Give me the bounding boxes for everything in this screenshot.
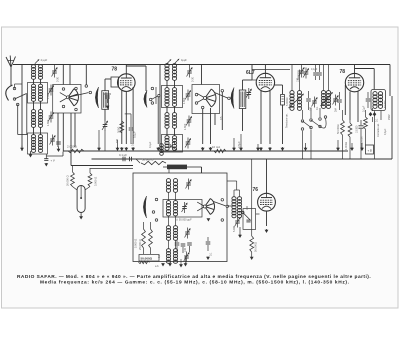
svg-text:76: 76 — [253, 187, 259, 193]
ground arrow V2 k2 — [268, 147, 272, 151]
caption line 2 — [40, 280, 350, 286]
capacitor C9 — [356, 105, 366, 159]
contact S3 b — [310, 119, 313, 129]
svg-text:100: 100 — [246, 205, 249, 210]
box around V4 grid — [243, 209, 256, 230]
contact S2 d — [221, 89, 224, 92]
svg-text:3.000 Ω: 3.000 Ω — [94, 177, 98, 186]
wire CV1 bottom — [104, 109, 106, 120]
wire chassis bus A — [63, 150, 348, 152]
trimmer C3 right of L3 — [48, 112, 54, 123]
contact S3 c — [319, 118, 322, 128]
svg-text:100: 100 — [297, 77, 300, 82]
ground arrow mid a — [97, 130, 101, 151]
ground arrow V1 k1 — [120, 147, 124, 151]
wire antenna contact drop — [15, 84, 28, 135]
ground arrow V1 k2 — [124, 147, 128, 151]
trimmer C4 right of L4 — [50, 135, 61, 153]
tuning capacitor CV1 rotor — [95, 87, 98, 108]
value labels osc section — [158, 205, 249, 258]
ground arrow mid f — [304, 143, 308, 151]
trimmer C12 — [182, 202, 188, 213]
trimmer C8 — [185, 138, 191, 149]
coil coupling — [160, 142, 177, 155]
contact S4 b — [152, 211, 155, 214]
label tube V2 6L7 — [246, 70, 255, 76]
label 50000 uuF — [176, 218, 192, 222]
ground arrow right a — [336, 140, 340, 151]
resistor R5 — [337, 120, 344, 135]
wire S2 top — [201, 65, 203, 85]
trimmer C14 — [184, 252, 190, 263]
contact S2 b — [195, 102, 198, 105]
resistor V2 screen — [281, 95, 289, 107]
IF transformer T3 can — [371, 90, 387, 111]
grid cap box V1 — [111, 77, 119, 87]
value labels top section — [47, 76, 379, 148]
svg-text:6L7: 6L7 — [246, 70, 255, 76]
resistor R2 3000 — [88, 173, 97, 187]
svg-text:Tensione an.: Tensione an. — [285, 113, 289, 128]
ground arrow right b — [350, 143, 354, 151]
capacitor T2b — [337, 92, 342, 110]
box around L10 — [163, 200, 202, 218]
trimmer T2 — [333, 95, 339, 106]
wire coil block verticals — [34, 65, 41, 136]
box around L6 — [162, 86, 183, 108]
svg-text:25.000 Ω: 25.000 Ω — [138, 239, 142, 250]
capacitor V1 cathode — [125, 114, 137, 144]
svg-text:Media frequenza: kc/s 264 — Ga: Media frequenza: kc/s 264 — Gamme: c. c.… — [40, 280, 350, 286]
trimmer arrow over L1 — [35, 58, 48, 64]
antenna lead hook — [6, 85, 13, 101]
capacitor T3 — [366, 92, 371, 108]
wire S3 curve — [320, 116, 327, 128]
coil L7 pair — [165, 113, 177, 129]
label tube V1 78 — [112, 67, 118, 73]
resistor 10mA on bus A — [212, 145, 226, 153]
wire V2 screen — [275, 85, 283, 94]
svg-text:1.600: 1.600 — [184, 123, 187, 130]
svg-text:0,1μF: 0,1μF — [133, 131, 137, 138]
wire S1 top feeds — [63, 65, 87, 88]
wire V1 plate to bus — [125, 65, 127, 74]
svg-text:50.000Ω: 50.000Ω — [254, 242, 258, 252]
svg-text:1.600: 1.600 — [183, 97, 186, 104]
tuning capacitor CV1b rotor — [144, 91, 147, 108]
contact S2 a — [195, 93, 198, 96]
capacitor pair 0,1uF — [311, 65, 322, 81]
resistor 2.000 ohm on bus A — [67, 145, 84, 153]
svg-text:10.000: 10.000 — [356, 125, 359, 133]
wire V1 plate branch — [126, 66, 146, 91]
wire R5 — [342, 110, 344, 159]
contact S4 d — [221, 199, 224, 202]
label 50000 ohm boxed — [139, 255, 160, 264]
svg-text:250V: 250V — [388, 114, 391, 120]
switch arm antenna — [15, 94, 27, 100]
svg-text:+ V: + V — [51, 159, 55, 163]
svg-text:0,5μF: 0,5μF — [237, 141, 241, 148]
ground arrow right c — [360, 143, 364, 151]
wire osc left — [144, 222, 151, 254]
wire CV1 top — [105, 79, 111, 91]
wire V2 screen drop — [281, 105, 285, 152]
caption line 1 — [17, 274, 371, 280]
trimmer arrows over L5 — [167, 59, 187, 64]
wire V1 cathode drops — [122, 87, 133, 144]
contact S4 c — [155, 219, 158, 222]
ground below L4 left — [29, 151, 33, 158]
resistor 50.000 ohm below bus B — [136, 158, 166, 165]
contact S4 a — [155, 198, 158, 201]
svg-text:∅ 50.000 μμF: ∅ 50.000 μμF — [176, 218, 192, 222]
trimmer C11 — [186, 179, 192, 190]
contact S2 c — [201, 106, 204, 109]
wire top bus — [13, 64, 390, 66]
wire T4 top — [227, 181, 240, 197]
contact S1 d — [75, 108, 78, 111]
trimmer C13 — [185, 228, 191, 239]
svg-text:1.000Ω: 1.000Ω — [345, 142, 348, 150]
svg-text:0,1μF: 0,1μF — [149, 141, 152, 148]
contact antenna a — [13, 87, 16, 90]
ballast lamp — [77, 186, 85, 213]
wire CV1b drop — [156, 97, 160, 152]
svg-text:4 μμF: 4 μμF — [41, 58, 48, 62]
wire V3 cathode drops — [345, 85, 358, 122]
contact mid b — [151, 102, 154, 105]
svg-text:78: 78 — [112, 67, 118, 73]
ground arrow S2 a — [201, 147, 205, 151]
wire right edge drop — [389, 65, 391, 97]
wire CV2 top — [243, 80, 253, 90]
switch arm T4 — [243, 213, 251, 221]
capacitor osc c — [187, 243, 192, 252]
capacitor osc a — [175, 240, 180, 252]
contact S4 e — [226, 205, 229, 208]
antenna — [6, 56, 16, 87]
wire T3 bottom — [375, 111, 382, 160]
svg-text:50.000 Ω: 50.000 Ω — [142, 158, 153, 162]
wire osc coil verticals — [169, 192, 176, 249]
trimmer T4 — [235, 217, 241, 228]
wire V4 grid lead — [227, 206, 260, 214]
box around L8 — [162, 135, 183, 153]
trimmer C7 — [186, 116, 192, 127]
resistor V1 cathode — [117, 121, 124, 133]
wire V2 aux top — [252, 65, 256, 81]
tube V1 78 — [118, 74, 136, 92]
svg-text:RADIO SAFAR. — Mod. « 804 » e: RADIO SAFAR. — Mod. « 804 » e « 940 ». —… — [17, 274, 371, 280]
svg-text:100: 100 — [184, 247, 187, 252]
ground arrow mid c — [232, 138, 236, 151]
contact S1 b — [62, 105, 65, 108]
switch arm S4 — [214, 202, 227, 207]
wire V2 cathode drops — [261, 91, 270, 144]
wire bus B right vertical — [391, 96, 393, 159]
contact S2 e — [228, 97, 231, 100]
label tube V4 76 — [253, 187, 259, 193]
box around L2 — [28, 83, 48, 104]
padder capacitor box CV1 — [102, 91, 109, 110]
trimmer below CV1 — [102, 120, 108, 151]
svg-text:+ S: + S — [368, 149, 372, 153]
ground osc b — [179, 256, 187, 268]
contact S4 f — [221, 219, 224, 222]
rotary switch S4 fan — [197, 198, 214, 221]
wire lamp top — [71, 166, 133, 169]
tube V2 6L7 — [256, 73, 274, 91]
svg-text:50.000Ω: 50.000Ω — [141, 257, 153, 261]
wire T2 top — [324, 65, 329, 92]
svg-text:1.600: 1.600 — [47, 92, 50, 99]
trimmer T1 — [312, 97, 318, 108]
capacitor T1 sec — [306, 91, 311, 110]
wire S3 drops — [303, 108, 321, 159]
capacitor osc b — [181, 244, 186, 253]
ground arrow S2 b — [209, 147, 213, 151]
padder capacitor box CV2 — [239, 90, 246, 109]
coil L6 pair — [165, 88, 177, 107]
wire CV2 bottom — [237, 109, 243, 149]
svg-text:0,1μF: 0,1μF — [311, 68, 318, 71]
ground V4 res — [250, 252, 254, 260]
coil L3 pair — [31, 110, 42, 128]
vertical labels right bottom — [377, 114, 391, 137]
contact S1 c — [75, 87, 78, 90]
wire x71 to lamp section — [70, 113, 72, 166]
coil L10 pair — [166, 201, 177, 216]
osc coil T4 — [232, 197, 242, 218]
capacitor osc d — [206, 237, 211, 251]
wire mid coil verticals — [167, 65, 175, 137]
svg-text:5.000Ω: 5.000Ω — [285, 98, 289, 106]
svg-text:300Ω: 300Ω — [117, 127, 121, 133]
contact S3 a — [301, 120, 304, 131]
resistor R6 — [345, 123, 352, 150]
box around L4 — [28, 133, 48, 154]
coil L12 pair — [166, 249, 177, 264]
svg-text:5.000 Ω: 5.000 Ω — [134, 239, 138, 248]
wire S2 drops — [203, 92, 223, 144]
svg-text:0,1μF: 0,1μF — [384, 128, 387, 135]
ground below L4 right — [44, 152, 63, 167]
IF transformer T1 — [289, 91, 305, 111]
rotary switch S2 fan — [196, 89, 216, 107]
resistor R7 — [361, 110, 368, 145]
svg-text:0,1 μF: 0,1 μF — [119, 153, 127, 157]
svg-text:25.000: 25.000 — [361, 136, 364, 144]
ground osc c — [206, 257, 210, 261]
switch arm S1 to tuning cap — [68, 91, 92, 97]
coil L8 pair — [165, 136, 177, 151]
vertical label T1 — [285, 113, 289, 128]
svg-text:50.000: 50.000 — [384, 100, 387, 108]
wire V4 cathode — [265, 211, 269, 233]
tube V4 76 — [258, 193, 276, 211]
trimmer C5 — [187, 65, 193, 78]
capacitor V4 grid — [246, 220, 250, 222]
wire V3 plate branch — [355, 69, 375, 90]
shielded lead black bar — [163, 165, 202, 173]
ground osc a — [155, 263, 172, 268]
wire V2 plate — [264, 65, 266, 74]
ground lamp — [79, 213, 83, 220]
IF transformer T2 — [321, 91, 334, 109]
ground arrow mid e — [256, 144, 260, 151]
contact T4 a — [242, 211, 245, 214]
coil L2 pair — [31, 84, 42, 101]
resistor V4 grid leak — [250, 236, 258, 252]
trimmer C2 right of L2 — [48, 85, 54, 96]
wire lamp joins — [73, 166, 91, 191]
svg-text:20.000 Ω: 20.000 Ω — [66, 175, 70, 186]
svg-text:4μμF: 4μμF — [181, 59, 187, 62]
battery terminal box — [366, 145, 374, 154]
svg-text:0,1μF: 0,1μF — [363, 105, 366, 112]
ground arrow V1 k3 — [131, 147, 135, 151]
ground arrow mid b — [116, 140, 120, 151]
svg-text:300: 300 — [116, 138, 119, 143]
capacitor 0,1uF on bus B — [119, 153, 132, 161]
svg-text:1.600: 1.600 — [47, 119, 50, 126]
ground arrow mid d — [239, 134, 243, 151]
capacitor V1 grid — [104, 94, 111, 109]
contact S1 a — [62, 88, 65, 91]
trimmer C6 — [185, 90, 191, 101]
svg-text:78: 78 — [340, 69, 346, 75]
coil L4 pair — [31, 135, 42, 153]
wire osc box top leads — [169, 167, 202, 173]
wire left col x22 — [21, 65, 23, 152]
svg-text:100: 100 — [310, 106, 313, 111]
wire second bus — [252, 69, 300, 80]
switch arms S3 — [303, 120, 321, 128]
svg-text:10 mA: 10 mA — [212, 145, 220, 149]
tuning capacitor CV3 rotor — [143, 196, 146, 218]
svg-text:2.000Ω: 2.000Ω — [67, 145, 78, 149]
label tube V3 78 — [340, 69, 346, 75]
contact CV1b — [149, 94, 160, 100]
svg-text:Corrente an.: Corrente an. — [377, 123, 380, 137]
ground T4 — [238, 227, 242, 238]
box band switch S2 — [192, 85, 220, 114]
coil L9 pair — [166, 179, 177, 193]
resistor R1 20000 — [66, 172, 75, 187]
ground left col — [20, 146, 24, 152]
box band switch S1 — [53, 85, 81, 114]
wire bus B — [92, 158, 393, 160]
svg-text:3-30: 3-30 — [192, 76, 195, 82]
svg-text:3-30: 3-30 — [57, 76, 60, 82]
oscillator box — [133, 173, 227, 262]
contact mid a — [151, 87, 154, 90]
wire V3 plate — [354, 65, 356, 74]
tuning capacitor CV2 rotor — [231, 88, 234, 109]
wire S1 bottom drops — [58, 113, 75, 151]
coil L1 antenna pair — [31, 65, 42, 80]
resistor R4 25000 — [138, 229, 152, 250]
wire V4 plate up — [266, 159, 268, 193]
contact antenna b — [13, 98, 16, 101]
trimmer C1 right of L1 — [52, 65, 58, 78]
switch arm S2 — [215, 93, 228, 99]
trimmer CV2 — [246, 88, 252, 99]
tube V3 78 — [345, 73, 363, 91]
rotary switch S1 fan — [60, 89, 79, 106]
coil L11 pair — [166, 226, 177, 241]
resistor R3 5000 — [134, 229, 146, 248]
contact antenna c — [16, 103, 19, 106]
wire x2517 drop — [251, 159, 253, 236]
coil L5 pair — [165, 64, 177, 81]
svg-text:264: 264 — [335, 107, 338, 112]
wire T1 top — [292, 65, 300, 92]
wire mid block left — [156, 65, 160, 152]
ground arrow V2 k1 — [259, 147, 263, 151]
wire R6 — [349, 120, 351, 159]
svg-text:5.000: 5.000 — [233, 225, 236, 232]
trimmer caps right of V2 — [297, 65, 310, 83]
svg-text:a b: a b — [155, 264, 159, 268]
capacitor C10 — [369, 108, 377, 122]
svg-text:50.000Ω: 50.000Ω — [337, 124, 340, 134]
